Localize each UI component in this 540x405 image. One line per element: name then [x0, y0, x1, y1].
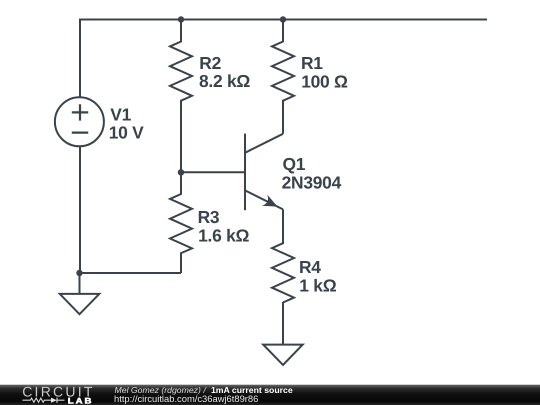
svg-text:8.2 kΩ: 8.2 kΩ: [199, 71, 250, 91]
svg-text:R4: R4: [299, 257, 321, 277]
wire emitter to R4: [282, 209, 284, 243]
transistor Q1 emitter arrow: [262, 195, 278, 207]
wire left ground stem: [79, 273, 81, 294]
wire base (node to Q1 base): [181, 171, 245, 173]
svg-text:LAB: LAB: [68, 396, 94, 405]
wire bottom (R3 to ground junction): [80, 272, 182, 274]
CircuitLab logo: [0, 380, 100, 405]
wire top bus from V1 to right: [80, 20, 487, 98]
logo diode: [51, 398, 57, 403]
node junction ground left: [76, 270, 82, 276]
node junction R2 top: [178, 16, 184, 22]
resistor R2: [170, 20, 192, 173]
node junction base: [178, 169, 184, 175]
transistor Q1 base bar: [244, 134, 246, 211]
footer credit bar: [0, 384, 540, 405]
V1 minus sign: [72, 132, 88, 134]
svg-text:2N3904: 2N3904: [282, 173, 342, 193]
resistor R1: [272, 20, 294, 134]
logo resistor squiggle: [23, 398, 52, 402]
svg-text:10 V: 10 V: [109, 123, 144, 143]
svg-text:R3: R3: [198, 207, 220, 227]
resistor R3: [170, 172, 192, 273]
ground symbol left: [60, 294, 100, 314]
wire right ground stem: [282, 302, 284, 345]
transistor Q1 emitter diagonal: [245, 190, 283, 209]
svg-text:1.6 kΩ: 1.6 kΩ: [198, 225, 249, 245]
footer credit text: [115, 386, 293, 395]
svg-text:V1: V1: [110, 104, 131, 124]
wire V1 bottom lead: [79, 146, 81, 273]
node junction R1 top: [280, 16, 286, 22]
svg-text:Q1: Q1: [283, 154, 306, 174]
svg-text:R2: R2: [199, 53, 221, 73]
resistor R4: [272, 243, 294, 303]
svg-text:1 kΩ: 1 kΩ: [299, 275, 336, 295]
svg-text:100 Ω: 100 Ω: [301, 71, 348, 91]
V1 plus sign: [72, 104, 88, 120]
svg-text:R1: R1: [301, 53, 323, 73]
transistor Q1 collector diagonal: [245, 134, 283, 153]
voltage source V1 circle: [55, 97, 104, 146]
ground symbol right: [263, 345, 303, 365]
